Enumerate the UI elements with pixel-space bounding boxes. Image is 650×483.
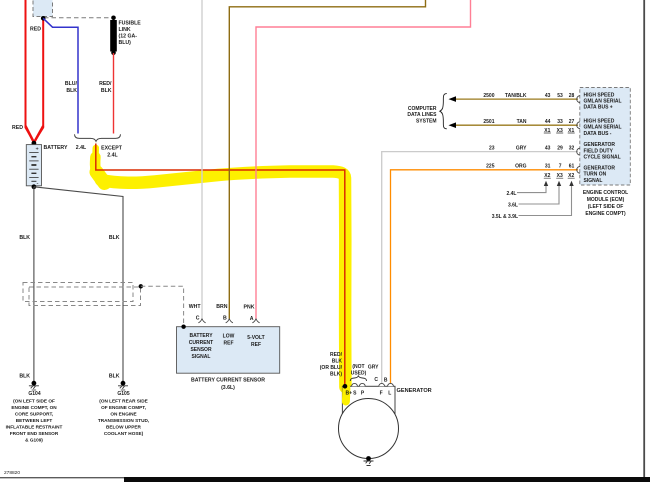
window bottom bar <box>124 477 650 482</box>
wire PNK from top edge to sensor pin A <box>256 0 471 319</box>
svg-text:TAN: TAN <box>517 119 527 125</box>
label BATTERY CURRENT SENSOR SIGNAL <box>189 333 213 360</box>
svg-text:SIGNAL: SIGNAL <box>192 354 211 360</box>
svg-text:5-VOLT: 5-VOLT <box>247 335 264 341</box>
svg-text:HIGH SPEED: HIGH SPEED <box>584 119 615 125</box>
arrowhead X2 3.5L/3.9L <box>569 181 573 186</box>
label COMPUTER DATA LINES SYSTEM <box>407 106 437 124</box>
label (NOT USED) <box>351 364 367 377</box>
label G104 location <box>6 398 63 442</box>
svg-text:REF: REF <box>251 342 261 348</box>
svg-text:CURRENT: CURRENT <box>189 340 213 346</box>
svg-text:BLU): BLU) <box>119 40 132 46</box>
svg-text:BLK: BLK <box>19 374 30 380</box>
svg-text:B: B <box>384 378 388 384</box>
svg-text:27: 27 <box>569 119 575 125</box>
svg-text:RED/: RED/ <box>330 352 343 358</box>
svg-text:ENGINE COMPT, ON: ENGINE COMPT, ON <box>11 405 57 410</box>
svg-text:FIELD DUTY: FIELD DUTY <box>584 148 614 154</box>
svg-text:L: L <box>388 391 391 397</box>
svg-text:C: C <box>374 377 378 383</box>
wire ORG generator turn on <box>391 170 579 384</box>
svg-text:& G109): & G109) <box>25 437 43 442</box>
wire WHT to sensor pin C <box>201 0 203 319</box>
ECM internal label HIGH SPEED GMLAN SERIAL DATA BUS - <box>584 119 622 137</box>
svg-text:ENGINE COMPT): ENGINE COMPT) <box>585 211 626 217</box>
svg-text:BLU/: BLU/ <box>65 81 78 87</box>
label ENGINE CONTROL MODULE (ECM) (LEFT SIDE OF ENGINE COMPT) <box>583 190 628 217</box>
fusible link body <box>110 20 117 52</box>
label row 2501 TAN 44 33 27 <box>483 119 574 125</box>
battery BAT1 red V terminals <box>26 126 44 142</box>
wire RED from junction dot to battery <box>34 18 43 141</box>
svg-text:DATA BUS +: DATA BUS + <box>584 105 613 111</box>
label LOW REF <box>223 334 235 347</box>
svg-text:GRY: GRY <box>368 365 379 371</box>
arrowhead X2 2.4L <box>544 181 548 186</box>
battery cell plates <box>29 153 38 182</box>
svg-text:-: - <box>37 181 39 187</box>
brace grouping 2.4L / EXCEPT 2.4L <box>75 134 121 141</box>
svg-text:(LEFT SIDE OF: (LEFT SIDE OF <box>588 204 624 210</box>
svg-text:ORG: ORG <box>515 164 527 170</box>
svg-text:BLK: BLK <box>19 235 30 241</box>
wire RED battery feed (highlighted) to generator B+ <box>96 144 345 387</box>
dashed option box A around ground wires <box>23 283 133 302</box>
svg-text:GENERATOR: GENERATOR <box>397 388 432 394</box>
wire TAN serial data - <box>455 124 578 126</box>
svg-text:44: 44 <box>545 119 551 125</box>
svg-text:DATA BUS -: DATA BUS - <box>584 131 612 137</box>
node dot generator B+ <box>343 384 348 389</box>
label 5-VOLT REF <box>247 335 264 348</box>
generator terminal strip <box>342 386 395 413</box>
svg-text:28: 28 <box>569 93 575 99</box>
svg-text:GRY: GRY <box>516 145 527 151</box>
label X2 X3 X2 connectors <box>544 173 574 179</box>
svg-text:23: 23 <box>489 145 495 151</box>
svg-text:COOLANT HOSE): COOLANT HOSE) <box>104 431 144 436</box>
label X1 X3 X1 connectors <box>544 128 574 134</box>
svg-text:B: B <box>223 316 227 322</box>
svg-text:G105: G105 <box>117 391 129 397</box>
label row 23 GRY 43 29 32 <box>489 145 575 151</box>
brace computer data lines system <box>440 94 447 129</box>
wire RED left vertical from top <box>26 0 34 142</box>
svg-text:3.6L: 3.6L <box>508 202 518 208</box>
svg-text:29: 29 <box>557 145 563 151</box>
svg-text:OF ENGINE COMPT,: OF ENGINE COMPT, <box>101 405 146 410</box>
svg-text:A: A <box>250 316 254 322</box>
svg-text:BLK: BLK <box>332 359 343 365</box>
battery BAT1 body <box>26 145 41 186</box>
svg-text:INFLATABLE RESTRAINT: INFLATABLE RESTRAINT <box>6 424 63 429</box>
svg-text:(NOT: (NOT <box>352 364 364 370</box>
svg-text:TAN/BLK: TAN/BLK <box>505 93 527 99</box>
svg-text:32: 32 <box>569 145 575 151</box>
svg-text:2.4L: 2.4L <box>107 153 118 159</box>
fusible link F1 top node dot <box>111 15 116 20</box>
svg-text:REF: REF <box>224 341 234 347</box>
generator G1 body circle <box>339 399 399 459</box>
svg-text:GENERATOR: GENERATOR <box>584 142 616 148</box>
svg-text:LOW: LOW <box>223 334 235 340</box>
svg-text:C: C <box>196 316 200 322</box>
svg-text:SYSTEM: SYSTEM <box>416 118 437 124</box>
svg-text:GENERATOR: GENERATOR <box>584 165 616 171</box>
ECM box U1 <box>580 88 631 186</box>
node dot battery positive <box>32 141 37 146</box>
svg-text:COMPUTER: COMPUTER <box>408 106 437 112</box>
connector cup pin B <box>226 319 233 323</box>
label RED/BLK (OR BLU/BLK) at generator <box>320 352 343 378</box>
svg-text:278820: 278820 <box>4 470 20 476</box>
svg-text:SENSOR: SENSOR <box>190 347 212 353</box>
svg-text:(ON LEFT SIDE OF: (ON LEFT SIDE OF <box>13 398 55 403</box>
engine option selector lines for ORG pin <box>517 185 572 216</box>
svg-text:B+: B+ <box>346 391 353 397</box>
svg-text:BATTERY: BATTERY <box>44 145 68 151</box>
node junction dot at box output <box>41 16 46 21</box>
wire BLK battery to G104 <box>33 187 35 382</box>
svg-text:DATA LINES: DATA LINES <box>407 112 437 118</box>
dashed option box B around ground wires <box>29 287 141 306</box>
svg-text:BLK: BLK <box>66 88 77 94</box>
svg-text:TURN ON: TURN ON <box>584 172 607 178</box>
svg-text:RED: RED <box>30 27 41 33</box>
svg-text:(3.6L): (3.6L) <box>221 385 235 391</box>
wire BLK battery to G105 <box>34 187 123 382</box>
brace not-used terminals <box>350 375 366 381</box>
svg-text:(ON LEFT REAR SIDE: (ON LEFT REAR SIDE <box>99 398 147 403</box>
svg-text:BETWEEN LEFT: BETWEEN LEFT <box>16 418 53 423</box>
svg-text:RED: RED <box>12 125 23 131</box>
dome bump L <box>388 383 394 386</box>
svg-text:2.4L: 2.4L <box>506 191 516 197</box>
svg-text:BELOW UPPER: BELOW UPPER <box>106 424 142 429</box>
svg-text:CORE SUPPORT,: CORE SUPPORT, <box>15 411 53 416</box>
connector cup pin C <box>198 319 205 323</box>
svg-text:FRONT END SENSOR: FRONT END SENSOR <box>10 431 59 436</box>
window bottom thin line <box>0 477 124 478</box>
connector cup ECM pin 27 <box>577 122 580 129</box>
dome bump F <box>379 383 385 386</box>
wire GRY field duty cycle <box>382 152 578 384</box>
node dot generator case ground <box>366 456 371 461</box>
connector cup ECM pin 32 <box>577 148 580 155</box>
svg-text:TRANSMISSION STUD,: TRANSMISSION STUD, <box>98 418 149 423</box>
dashed wire from junction to fusible link <box>44 17 112 19</box>
label G105 location <box>98 398 149 436</box>
svg-text:2.4L: 2.4L <box>76 145 87 151</box>
wire RED/BLK below fusible link <box>113 53 115 134</box>
svg-text:+: + <box>36 147 39 153</box>
dashed link to battery current sensor <box>141 286 184 326</box>
svg-text:EXCEPT: EXCEPT <box>101 146 123 152</box>
arrowhead TAN/BLK <box>449 96 457 102</box>
node dot on dashed link <box>139 284 143 288</box>
svg-text:31: 31 <box>545 164 551 170</box>
svg-text:WHT: WHT <box>189 304 202 310</box>
svg-text:BLK): BLK) <box>330 372 342 378</box>
svg-text:G104: G104 <box>28 391 40 397</box>
ECM internal label GENERATOR TURN ON SIGNAL <box>584 165 616 183</box>
wire BRN from top edge to sensor pin B <box>229 0 425 319</box>
svg-text:HIGH SPEED: HIGH SPEED <box>584 92 615 98</box>
svg-text:PNK: PNK <box>244 305 255 311</box>
node dot battery negative <box>32 184 37 189</box>
svg-text:MODULE (ECM): MODULE (ECM) <box>587 197 625 203</box>
arrowhead X3 3.6L <box>557 181 561 186</box>
label row 2500 TAN/BLK 43 53 28 <box>483 93 574 99</box>
svg-text:BATTERY CURRENT SENSOR: BATTERY CURRENT SENSOR <box>191 378 265 384</box>
wire TAN/BLK serial data + <box>455 98 578 100</box>
fusible link bottom node dot <box>111 51 116 56</box>
ground generator case symbol <box>364 461 374 466</box>
svg-text:CYCLE SIGNAL: CYCLE SIGNAL <box>584 155 621 161</box>
svg-text:RED/: RED/ <box>99 81 112 87</box>
wire BLU/BLK from junction <box>43 18 78 133</box>
svg-text:53: 53 <box>557 93 563 99</box>
junction box (top-left dashed component) <box>33 0 53 17</box>
yellow highlighter tail inside strip <box>342 388 351 402</box>
arrowhead TAN <box>449 122 457 128</box>
node dot sensor top-left <box>181 325 185 329</box>
ground G104 symbol <box>29 381 39 390</box>
svg-text:BLK: BLK <box>109 374 120 380</box>
svg-text:33: 33 <box>557 119 563 125</box>
svg-text:BATTERY: BATTERY <box>189 333 213 339</box>
svg-text:(12 GA-: (12 GA- <box>119 34 138 40</box>
svg-text:GMLAN SERIAL: GMLAN SERIAL <box>584 125 622 131</box>
svg-text:GMLAN SERIAL: GMLAN SERIAL <box>584 99 622 105</box>
svg-text:2501: 2501 <box>483 119 494 125</box>
ECM internal label HIGH SPEED GMLAN SERIAL DATA BUS + <box>584 92 622 110</box>
svg-text:ON ENGINE: ON ENGINE <box>110 411 136 416</box>
yellow highlighter over battery feed wire <box>95 148 345 387</box>
window right border <box>643 0 645 477</box>
ground G105 symbol <box>118 381 128 390</box>
dome bump P <box>359 383 365 386</box>
svg-text:FUSIBLE: FUSIBLE <box>119 21 142 27</box>
svg-text:BRN: BRN <box>216 304 227 310</box>
svg-text:43: 43 <box>545 145 551 151</box>
connector cup ECM pin 61 <box>577 166 580 173</box>
dome bump S <box>352 383 358 386</box>
svg-text:BLK: BLK <box>101 88 112 94</box>
ECM internal label GENERATOR FIELD DUTY CYCLE SIGNAL <box>584 142 621 160</box>
svg-text:LINK: LINK <box>119 27 131 33</box>
connector cup ECM pin 28 <box>577 96 580 103</box>
svg-text:SIGNAL: SIGNAL <box>584 178 603 184</box>
svg-text:43: 43 <box>545 93 551 99</box>
svg-text:61: 61 <box>569 164 575 170</box>
label row 225 ORG 31 7 61 <box>486 164 574 170</box>
svg-text:ENGINE CONTROL: ENGINE CONTROL <box>583 190 628 196</box>
svg-text:225: 225 <box>486 164 495 170</box>
battery current sensor box U2 <box>177 327 280 374</box>
svg-text:BLK: BLK <box>109 235 120 241</box>
connector cup pin A <box>252 319 259 323</box>
svg-text:F: F <box>380 391 383 397</box>
svg-text:(OR BLU/: (OR BLU/ <box>320 365 343 371</box>
svg-text:3.5L & 3.9L: 3.5L & 3.9L <box>492 214 518 220</box>
svg-text:2500: 2500 <box>483 93 494 99</box>
svg-text:7: 7 <box>559 164 562 170</box>
